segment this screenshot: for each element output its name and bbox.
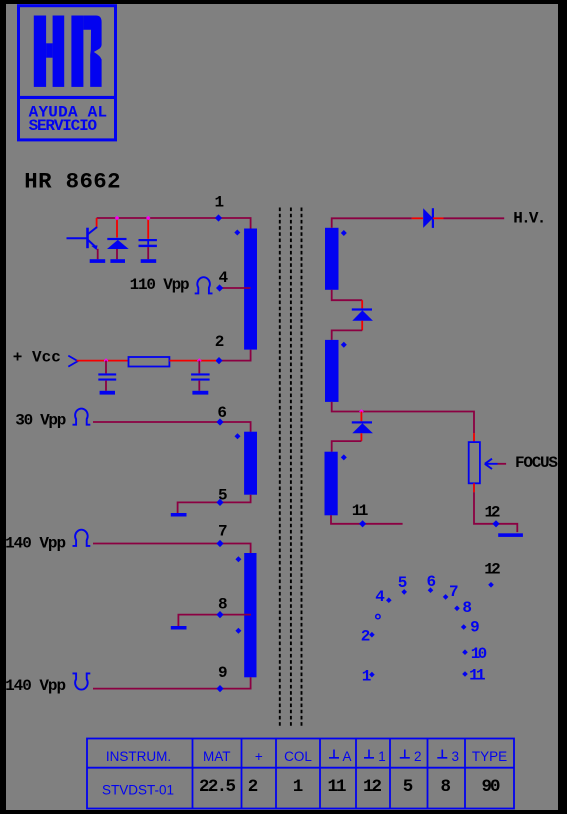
pin diagram dot 2 xyxy=(369,632,375,638)
svg-text:12: 12 xyxy=(363,777,382,797)
svg-text:TYPE: TYPE xyxy=(472,749,507,764)
pin diagram hollow dot 3 xyxy=(376,614,380,618)
secondary winding WA xyxy=(325,228,339,290)
logo letter H xyxy=(34,16,64,87)
pin 2 dot xyxy=(215,357,222,364)
junction focus rail xyxy=(359,409,364,414)
svg-text:FOCUS: FOCUS xyxy=(515,454,558,472)
diode D2 xyxy=(352,308,372,310)
svg-text:9: 9 xyxy=(470,618,480,636)
svg-text:H.V.: H.V. xyxy=(513,210,546,228)
HV rectifier diode xyxy=(423,208,433,228)
svg-text:A: A xyxy=(342,749,351,764)
pin diagram dot 7 xyxy=(443,594,449,600)
svg-text:110 Vpp: 110 Vpp xyxy=(130,276,190,294)
focus arrow xyxy=(485,459,498,469)
svg-text:1: 1 xyxy=(293,777,304,797)
wire transistor collector stub xyxy=(96,218,98,228)
secondary winding WB xyxy=(325,340,339,402)
ground pin 5 xyxy=(171,513,187,517)
wire WC to pin 11 xyxy=(331,515,403,524)
wire focus stub xyxy=(498,463,507,465)
wire snubber cap stub xyxy=(147,218,149,239)
svg-text:12: 12 xyxy=(484,560,501,578)
header perp 2 xyxy=(400,749,422,764)
wire resistor to pin 12 ground xyxy=(474,492,517,532)
wire pin 6 row xyxy=(93,422,251,432)
wire pin1 top rail xyxy=(97,218,251,229)
svg-text:5: 5 xyxy=(403,777,414,797)
waveform U 140Vpp xyxy=(73,673,91,689)
table frame xyxy=(87,739,514,809)
wire HV rail xyxy=(332,218,412,228)
inductor L1 xyxy=(129,357,170,367)
svg-text:4: 4 xyxy=(375,588,385,606)
ground pin 8 xyxy=(171,626,187,630)
polarity dot W2 xyxy=(235,433,241,439)
logo box HR xyxy=(19,6,116,140)
svg-text:3: 3 xyxy=(452,749,460,764)
pin 7 dot xyxy=(216,540,223,547)
wire D2 to WB xyxy=(332,330,363,340)
capacitor C3 xyxy=(198,361,200,374)
svg-text:7: 7 xyxy=(449,583,459,601)
wire pin 9 row xyxy=(93,677,251,688)
polarity dot WB xyxy=(341,342,347,348)
svg-text:8: 8 xyxy=(462,599,472,617)
wire damper diode stub xyxy=(116,218,118,238)
polarity dot WA xyxy=(341,230,347,236)
pin 5 dot xyxy=(216,499,223,506)
wire red after HV diode xyxy=(433,217,444,219)
svg-text:11: 11 xyxy=(352,502,369,520)
wire WA to diode D2 xyxy=(332,290,363,300)
waveform arch 110Vpp xyxy=(195,277,213,293)
svg-text:140 Vpp: 140 Vpp xyxy=(5,677,66,695)
waveform arch 30Vpp xyxy=(73,409,91,425)
junction Vcc cap B xyxy=(197,358,202,363)
wire WB to focus rail xyxy=(332,402,474,433)
wire pin 4 xyxy=(220,287,251,289)
pin diagram dot 12 xyxy=(488,582,494,588)
wire HV output xyxy=(444,217,505,219)
header perp 3 xyxy=(437,749,459,764)
wire D3 to WC xyxy=(332,441,362,452)
svg-text:6: 6 xyxy=(427,573,437,591)
wire pin 7 row xyxy=(93,544,251,554)
wire diode ground lead xyxy=(116,249,118,259)
svg-text:SERVICIO: SERVICIO xyxy=(29,117,98,135)
polarity dot WC xyxy=(341,454,347,460)
ground under snubber cap xyxy=(141,259,157,263)
svg-text:22.5: 22.5 xyxy=(199,777,236,797)
polarity dot W1 xyxy=(234,230,240,236)
ground under C3 xyxy=(192,391,208,395)
focus resistor xyxy=(469,442,480,483)
Vcc input chevron xyxy=(68,356,78,367)
primary winding W3 xyxy=(244,553,256,677)
svg-text:1: 1 xyxy=(215,194,225,212)
waveform arch 140Vpp xyxy=(73,530,91,546)
svg-text:2: 2 xyxy=(248,777,259,797)
pin diagram dot 5 xyxy=(401,589,407,595)
svg-text:30 Vpp: 30 Vpp xyxy=(15,411,66,429)
pin diagram dot 8 xyxy=(454,606,460,612)
header perp 1 xyxy=(364,749,386,764)
wire inductor to pin 2 xyxy=(169,360,216,362)
wire red below focus resistor xyxy=(473,483,475,492)
svg-text:INSTRUM.: INSTRUM. xyxy=(106,749,171,764)
diode D3 xyxy=(360,412,362,422)
wire transistor emitter lead xyxy=(97,249,99,259)
svg-text:HR 8662: HR 8662 xyxy=(24,168,120,194)
pin 12 dot xyxy=(492,520,499,527)
svg-text:+: + xyxy=(255,749,263,764)
pin diagram dot 10 xyxy=(462,649,468,655)
primary winding W2 xyxy=(244,432,257,495)
capacitor C2 xyxy=(105,361,107,374)
polarity dot W3 upper xyxy=(235,556,241,562)
pin 6 dot xyxy=(216,418,223,425)
ground pin 12 xyxy=(498,533,523,537)
svg-text:1: 1 xyxy=(362,668,372,686)
damper diode D1 xyxy=(107,238,126,240)
junction Vcc cap A xyxy=(104,358,109,363)
pin diagram dot 9 xyxy=(461,624,467,630)
transformer core dashed lines xyxy=(280,208,302,728)
logo letter R xyxy=(71,16,101,87)
transistor Q1 xyxy=(67,227,98,248)
svg-text:6: 6 xyxy=(217,404,227,422)
pin 1 dot xyxy=(215,214,222,221)
pin diagram dot 4 xyxy=(386,597,392,603)
svg-text:11: 11 xyxy=(469,667,486,685)
junction on pin1 rail at diode xyxy=(115,216,120,221)
ground under transistor xyxy=(90,259,106,263)
pin diagram dot 1 xyxy=(369,672,375,678)
svg-text:2: 2 xyxy=(414,749,422,764)
svg-text:MAT: MAT xyxy=(203,749,231,764)
svg-text:1: 1 xyxy=(378,749,386,764)
pin 4 dot xyxy=(216,284,223,291)
pin diagram dot 6 xyxy=(428,587,434,593)
svg-text:8: 8 xyxy=(218,595,228,613)
svg-text:9: 9 xyxy=(218,664,228,682)
svg-text:7: 7 xyxy=(218,522,228,540)
svg-text:COL: COL xyxy=(284,749,312,764)
wire red above focus resistor xyxy=(473,433,475,442)
junction on pin1 rail at cap xyxy=(146,216,151,221)
header perp A xyxy=(329,749,352,764)
polarity dot W3 lower xyxy=(235,628,241,634)
secondary winding WC xyxy=(325,452,338,516)
svg-text:11: 11 xyxy=(328,777,347,797)
pin 8 dot xyxy=(216,611,223,618)
wire cap ground lead xyxy=(147,247,149,259)
wire winding bottom to pin 2 xyxy=(221,350,251,361)
svg-text:2: 2 xyxy=(215,333,225,351)
svg-text:STVDST-01: STVDST-01 xyxy=(102,783,174,798)
primary winding W1 xyxy=(244,229,257,350)
svg-text:10: 10 xyxy=(471,645,488,663)
ground under damper diode xyxy=(110,259,125,263)
svg-text:12: 12 xyxy=(485,504,501,522)
svg-text:8: 8 xyxy=(441,777,452,797)
svg-text:4: 4 xyxy=(219,269,229,287)
svg-text:90: 90 xyxy=(482,777,501,797)
pin 11 dot xyxy=(359,520,366,527)
ground under C2 xyxy=(100,391,115,395)
wire Vcc to inductor xyxy=(77,360,129,362)
svg-text:140 Vpp: 140 Vpp xyxy=(5,535,66,553)
wire red before HV diode xyxy=(412,217,423,219)
wire pin 8 to ground xyxy=(178,615,251,626)
pin diagram dot 11 xyxy=(462,671,468,677)
snubber capacitor C1 xyxy=(139,239,157,247)
wire pin 5 to ground xyxy=(178,495,251,513)
svg-text:+ Vcc: + Vcc xyxy=(13,349,61,367)
svg-text:5: 5 xyxy=(398,574,408,592)
pin 9 dot xyxy=(216,685,223,692)
svg-text:2: 2 xyxy=(361,627,371,645)
